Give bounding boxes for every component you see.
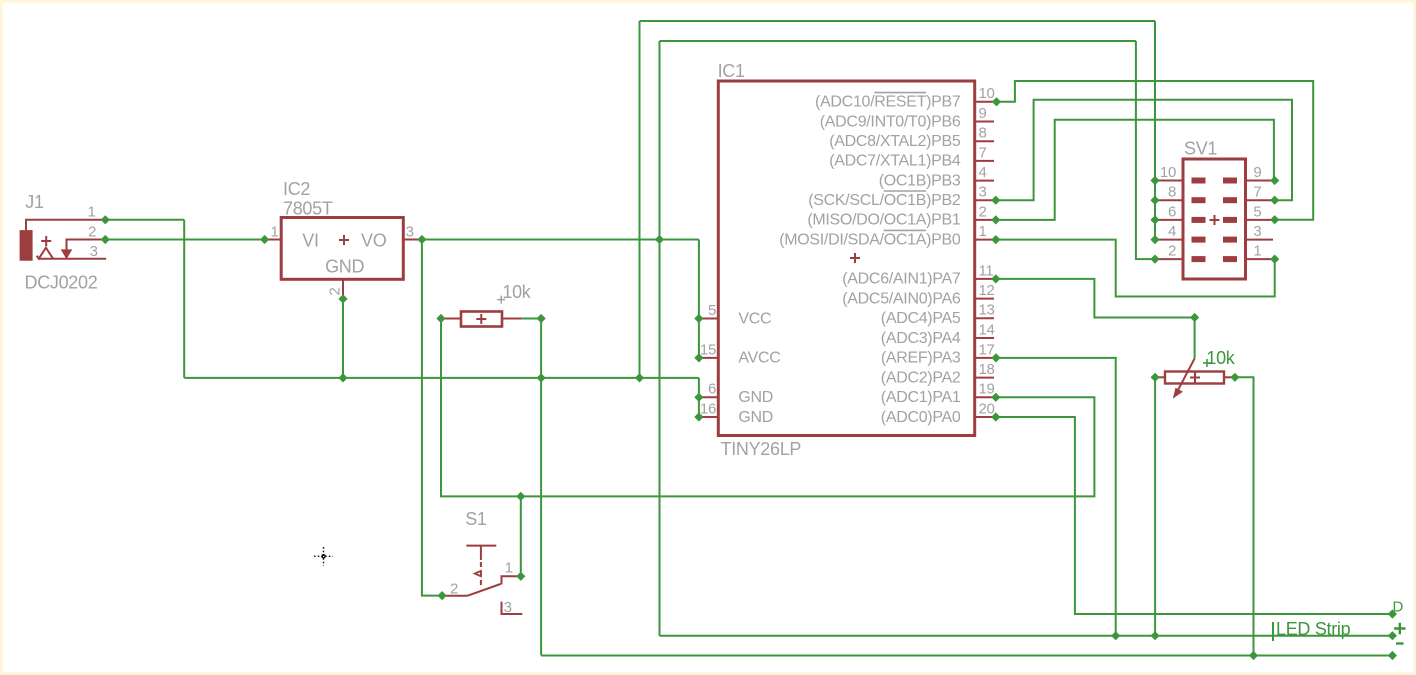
wire J1 pin1 to GND drop	[105, 219, 184, 221]
wire GND rail drop to IC1 GND pins	[698, 378, 700, 417]
junction IC1 GND16	[694, 412, 703, 421]
IC1 pin 10 PB7 stub	[975, 101, 994, 103]
svg-text:10k: 10k	[502, 282, 531, 302]
SV1 pin 7 stub right	[1246, 199, 1274, 201]
svg-text:18: 18	[979, 361, 995, 378]
junction IC1 pin19	[991, 393, 1000, 402]
SV1 pad left row 8	[1192, 197, 1206, 203]
svg-text:1: 1	[1253, 243, 1261, 260]
wire GND rail horizontal	[184, 377, 699, 379]
svg-text:1: 1	[270, 223, 278, 240]
svg-text:VI: VI	[302, 230, 318, 250]
svg-text:7: 7	[1253, 184, 1261, 201]
svg-text:12: 12	[979, 282, 995, 299]
svg-text:16: 16	[700, 400, 716, 417]
S1 pin 2 stub	[442, 595, 467, 597]
wire GND top bus horizontal	[640, 20, 1156, 22]
svg-text:4: 4	[979, 164, 987, 181]
junction SV1 pin4	[1150, 235, 1159, 244]
R2 pin 2 stub	[1224, 376, 1234, 378]
SV1 pad left row 6	[1192, 217, 1206, 223]
wire GND left vertical drop	[639, 21, 641, 378]
svg-text:3: 3	[504, 599, 512, 616]
wire pot left pin to +5V rail	[1154, 377, 1156, 635]
J1 polarity + mark	[41, 236, 51, 246]
svg-text:(ADC10/RESET)PB7: (ADC10/RESET)PB7	[815, 94, 961, 111]
svg-text:14: 14	[979, 321, 995, 338]
junction SV1 pin8	[1150, 196, 1159, 205]
wire S1 pin1 up to PA1 net	[520, 496, 522, 576]
header SV1 body	[1183, 159, 1246, 279]
svg-text:DCJ0202: DCJ0202	[25, 272, 98, 292]
svg-text:(ADC6/AIN1)PA7: (ADC6/AIN1)PA7	[842, 271, 961, 288]
junction GND rail / R1	[537, 373, 546, 382]
wire LED minus rail	[541, 655, 1392, 657]
svg-text:(ADC8/XTAL2)PB5: (ADC8/XTAL2)PB5	[829, 133, 961, 150]
J1 center pin arrow	[61, 249, 73, 259]
IC1 pin 17 PA3 stub	[975, 357, 994, 359]
junction SV1 pin10	[1150, 176, 1159, 185]
SV1 origin +	[1210, 215, 1220, 225]
svg-text:TINY26LP: TINY26LP	[721, 439, 802, 459]
net label +	[1394, 623, 1405, 634]
svg-text:2: 2	[450, 580, 458, 597]
junction IC2 GND pin	[338, 294, 347, 303]
svg-text:10: 10	[1160, 164, 1176, 181]
wire PA1 pin19 to R1 and S1	[441, 319, 1094, 497]
svg-text:13: 13	[979, 302, 995, 319]
svg-text:IC1: IC1	[718, 61, 745, 81]
IC1 pin 18 PA2 stub	[975, 377, 994, 379]
svg-text:2: 2	[327, 287, 344, 295]
R1 text origin cross	[497, 296, 505, 304]
SV1 pin 10 stub left	[1157, 180, 1183, 182]
J1 sleeve chevron	[37, 248, 53, 259]
IC2 pin 2 GND stub	[342, 279, 344, 299]
svg-text:SV1: SV1	[1184, 139, 1217, 159]
svg-text:3: 3	[90, 243, 98, 260]
microcontroller IC1 body	[718, 81, 974, 436]
IC1 origin +	[850, 253, 860, 263]
IC1 pin 1 PB0 stub	[975, 239, 994, 241]
SV1 pad right row 9	[1223, 178, 1237, 184]
junction IC2 VI	[260, 235, 269, 244]
junction IC1 GND6	[694, 393, 703, 402]
junction S1 pin2	[438, 591, 447, 600]
junction R1 left	[436, 314, 445, 323]
wire +5V to SV1 pin2	[1136, 41, 1155, 259]
SV1 pin 1 stub right	[1246, 258, 1274, 260]
svg-text:3: 3	[406, 223, 414, 240]
svg-text:GND: GND	[738, 409, 773, 426]
SV1 pad left row 10	[1192, 178, 1206, 184]
S1 stem	[480, 546, 482, 560]
junction SV1 pin7	[1270, 196, 1279, 205]
junction IC1 pin10	[992, 97, 1001, 106]
IC1 pin 3 PB2 stub	[975, 199, 994, 201]
wire +5V from VO to IC1 VCC	[422, 239, 699, 241]
R1 pin 1 stub	[441, 318, 461, 320]
svg-text:1: 1	[979, 223, 987, 240]
junction IC1 pin11	[991, 274, 1000, 283]
svg-text:S1: S1	[465, 509, 487, 529]
J1 pin 2	[67, 240, 106, 250]
connector J1 DC jack body	[20, 230, 33, 261]
wire PB0 pin1 to SV1 pin1	[996, 240, 1275, 297]
wire GND right vertical to SV1 even pins	[1154, 21, 1156, 240]
IC1 pin 8 PB5 stub	[975, 140, 994, 142]
junction pot wiper	[1190, 313, 1199, 322]
junction IC1 pin3	[991, 196, 1000, 205]
svg-text:7805T: 7805T	[283, 199, 333, 219]
SV1 pin 5 stub right	[1246, 219, 1274, 221]
svg-text:9: 9	[1253, 164, 1261, 181]
svg-text:4: 4	[1168, 223, 1176, 240]
svg-text:(MOSI/DI/SDA/OC1A)PB0: (MOSI/DI/SDA/OC1A)PB0	[779, 231, 961, 248]
LED Strip label tick	[1272, 622, 1274, 641]
IC1 pin 15 AVCC stub	[700, 357, 718, 359]
junction pot left	[1151, 373, 1160, 382]
svg-text:(ADC2)PA2: (ADC2)PA2	[881, 369, 961, 386]
IC1 pin 2 PB1 stub	[975, 219, 994, 221]
svg-text:8: 8	[979, 125, 987, 142]
wire PA7 pin11 to potentiometer wiper	[996, 279, 1195, 359]
svg-text:10: 10	[979, 85, 995, 102]
S1 pin 1 contact	[502, 576, 522, 584]
S1 actuator arrowhead	[475, 571, 482, 577]
wire VI from J1 pin2 to IC2	[105, 239, 264, 241]
junction SV1 pin2	[1150, 255, 1159, 264]
svg-text:3: 3	[979, 184, 987, 201]
SV1 pin 4 stub left	[1157, 239, 1183, 241]
svg-text:(ADC5/AIN0)PA6: (ADC5/AIN0)PA6	[842, 290, 961, 307]
svg-text:GND: GND	[325, 257, 364, 277]
IC1 pin 14 PA4 stub	[975, 337, 994, 339]
junction IC2 VO	[417, 235, 426, 244]
svg-text:(SCK/SCL/OC1B)PB2: (SCK/SCL/OC1B)PB2	[808, 192, 961, 209]
SV1 pin 9 stub right	[1246, 180, 1274, 182]
junction LED - end	[1388, 651, 1397, 660]
junction J1 pin2	[101, 235, 110, 244]
svg-text:1: 1	[88, 204, 96, 221]
svg-text:AVCC: AVCC	[738, 350, 780, 367]
resistor R1 body	[461, 312, 502, 327]
junction LED + end	[1388, 631, 1397, 640]
R2 pin 1 stub	[1157, 376, 1165, 378]
IC1 pin 20 PA0 stub	[975, 416, 994, 418]
svg-text:(AREF)PA3: (AREF)PA3	[881, 350, 961, 367]
svg-text:19: 19	[979, 381, 995, 398]
wire +5V main vertical	[659, 41, 661, 636]
wire pot right to ground	[1235, 377, 1254, 655]
svg-text:5: 5	[1253, 203, 1261, 220]
junction IC1 pin1	[991, 235, 1000, 244]
wire VO down to switch S1	[422, 240, 442, 596]
svg-text:(ADC0)PA0: (ADC0)PA0	[881, 409, 961, 426]
svg-text:2: 2	[979, 203, 987, 220]
R2 wiper arrow	[1178, 359, 1195, 392]
IC1 overline OC1B	[884, 190, 926, 192]
SV1 pin 3 stub right	[1246, 239, 1274, 241]
svg-text:9: 9	[979, 105, 987, 122]
IC1 pin 12 PA6 stub	[975, 298, 994, 300]
svg-text:(ADC4)PA5: (ADC4)PA5	[881, 310, 961, 327]
svg-text:3: 3	[1253, 223, 1261, 240]
svg-text:(OC1B)PB3: (OC1B)PB3	[879, 172, 961, 189]
svg-text:VCC: VCC	[738, 310, 771, 327]
IC1 pin 7 PB4 stub	[975, 160, 994, 162]
IC2 pin 1 VI stub	[265, 239, 282, 241]
svg-text:(ADC9/INT0/T0)PB6: (ADC9/INT0/T0)PB6	[820, 113, 961, 130]
svg-text:10k: 10k	[1206, 348, 1235, 368]
voltage regulator IC2 body	[281, 218, 403, 280]
IC2 origin +	[339, 235, 349, 245]
junction +5V rail / pot	[1151, 631, 1160, 640]
svg-text:VO: VO	[361, 230, 387, 250]
junction J1 pin1	[101, 215, 110, 224]
SV1 pad right row 7	[1223, 197, 1237, 203]
cursor crosshair	[314, 547, 333, 566]
IC1 pin 11 PA7 stub	[975, 278, 994, 280]
junction SV1 pin1	[1270, 255, 1279, 264]
wire GND from J1 pin1 vertical	[183, 220, 185, 378]
junction GND rail / top bus	[635, 373, 644, 382]
SV1 pad right row 3	[1223, 237, 1237, 243]
net label -	[1396, 642, 1404, 644]
junction LED D end	[1388, 609, 1397, 618]
junction GND rail / IC2	[338, 373, 347, 382]
svg-text:(ADC1)PA1: (ADC1)PA1	[881, 389, 961, 406]
svg-text:1: 1	[505, 560, 513, 577]
svg-text:7: 7	[979, 144, 987, 161]
R2 origin +	[1190, 373, 1200, 383]
svg-text:IC2: IC2	[283, 179, 310, 199]
SV1 pad left row 2	[1192, 256, 1206, 262]
SV1 pin 8 stub left	[1157, 199, 1183, 201]
J1 pin 1	[26, 220, 105, 230]
junction minus rail / pot	[1249, 651, 1258, 660]
switch S1 button cap	[466, 545, 496, 547]
junction SV1 pin6	[1150, 215, 1159, 224]
SV1 pad right row 1	[1223, 256, 1237, 262]
IC1 pin 5 VCC stub	[700, 318, 718, 320]
SV1 pad left row 4	[1192, 237, 1206, 243]
svg-text:(ADC3)PA4: (ADC3)PA4	[881, 330, 961, 347]
wire +5V top horizontal to SV1	[660, 40, 1136, 42]
svg-text:GND: GND	[738, 389, 773, 406]
junction pot right	[1230, 373, 1239, 382]
junction IC1 AVCC	[694, 353, 703, 362]
wire IC2 GND pin2 down	[342, 299, 344, 378]
svg-text:6: 6	[708, 381, 716, 398]
wire R1 right pin link	[522, 318, 541, 320]
junction IC1 pin2	[991, 215, 1000, 224]
IC1 pin 6 GND stub	[700, 396, 718, 398]
junction +5V / VO rail	[655, 235, 664, 244]
svg-text:5: 5	[708, 302, 716, 319]
wire PB2 pin3 to SV1 pin7	[996, 100, 1292, 201]
svg-text:(ADC7/XTAL1)PB4: (ADC7/XTAL1)PB4	[829, 153, 961, 170]
S1 pin 3 stub	[502, 602, 523, 614]
SV1 pin 6 stub left	[1157, 219, 1183, 221]
wire LED plus rail	[660, 635, 1393, 637]
wire PA0 pin20 to LED data	[996, 417, 1393, 614]
junction SV1 pin9	[1270, 176, 1279, 185]
wire +5V vertical to VCC/AVCC pins	[698, 240, 700, 358]
svg-text:11: 11	[979, 262, 994, 279]
svg-text:J1: J1	[25, 192, 44, 212]
IC1 overline OC1A	[884, 229, 926, 231]
IC1 overline RESET	[874, 92, 926, 94]
IC1 pin 16 GND stub	[700, 416, 718, 418]
svg-text:LED Strip: LED Strip	[1276, 619, 1351, 639]
wire R1 right to minus rail vertical	[540, 319, 542, 656]
junction IC1 VCC	[694, 314, 703, 323]
wire PB7 pin10 to SV1 pin5	[997, 81, 1314, 220]
R1 pin 2 stub	[502, 318, 522, 320]
R2 text origin cross	[1203, 359, 1211, 367]
svg-text:20: 20	[979, 400, 995, 417]
svg-text:6: 6	[1168, 203, 1176, 220]
wire PB1 pin2 to SV1 pin9	[996, 120, 1274, 220]
junction R1 right	[537, 314, 546, 323]
S1 actuator dashed	[480, 562, 482, 588]
R1 origin +	[476, 314, 486, 324]
S1 lever	[467, 584, 500, 596]
svg-text:2: 2	[88, 223, 96, 240]
SV1 pad right row 5	[1223, 217, 1237, 223]
junction S1 pin1	[516, 572, 525, 581]
SV1 pin 2 stub left	[1157, 258, 1183, 260]
svg-text:2: 2	[1168, 243, 1176, 260]
junction IC1 pin17	[991, 353, 1000, 362]
svg-text:15: 15	[700, 341, 716, 358]
junction SV1 pin5	[1270, 215, 1279, 224]
IC1 pin 4 PB3 stub	[975, 180, 994, 182]
IC1 pin 19 PA1 stub	[975, 396, 994, 398]
IC1 pin 9 PB6 stub	[975, 121, 994, 123]
junction IC1 pin20	[991, 412, 1000, 421]
wire AREF PA3 to +5V rail	[996, 358, 1116, 636]
svg-text:(MISO/DO/OC1A)PB1: (MISO/DO/OC1A)PB1	[807, 212, 961, 229]
junction S1 net tee	[516, 492, 525, 501]
IC2 pin 3 VO stub	[403, 239, 422, 241]
IC1 pin 13 PA5 stub	[975, 317, 994, 319]
junction +5V rail / AREF	[1111, 631, 1120, 640]
svg-text:17: 17	[979, 341, 995, 358]
potentiometer R2 body	[1165, 372, 1224, 384]
svg-text:8: 8	[1168, 184, 1176, 201]
J1 pin 3	[38, 258, 106, 260]
